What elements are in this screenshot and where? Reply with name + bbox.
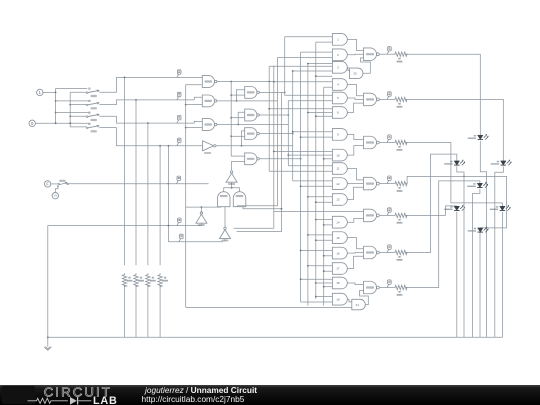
junction F-D tap bbox=[168, 145, 170, 147]
wire bus2 to SW3 main bbox=[70, 115, 87, 117]
resistor R-f 330 bbox=[394, 250, 408, 254]
net flag D bbox=[177, 142, 179, 145]
wire gA1 out elbow bbox=[347, 39, 363, 50]
wire gB3 input3 bbox=[316, 115, 333, 117]
wire col2 gate C upper feed bbox=[242, 131, 245, 146]
wire segment g to LED bbox=[406, 181, 480, 288]
source V1 bbox=[52, 193, 58, 199]
svg-text:11: 11 bbox=[336, 167, 339, 171]
gate col2-C (NAND) bbox=[245, 128, 257, 140]
wire bus2 to SW1 main bbox=[70, 91, 87, 93]
and gate 13 bbox=[332, 194, 347, 206]
junction col2-C out bbox=[292, 133, 294, 135]
wire gA3 out to gate20 bbox=[347, 67, 349, 70]
wire net B jog up to NAND2 bbox=[194, 97, 202, 100]
switch SW4 (SPDT) bbox=[89, 123, 91, 125]
svg-text:16: 16 bbox=[336, 251, 340, 255]
wire gF3 out elbow bbox=[347, 256, 363, 268]
LED Dc (segment c) bbox=[500, 206, 505, 210]
wire NOT1 output up to col2-D lower input bbox=[232, 162, 245, 171]
wire gB3 input2 bbox=[308, 112, 333, 114]
wire column2 feed vertical from NAND1 bbox=[230, 82, 232, 157]
wire NOT3 input lead bbox=[224, 239, 226, 242]
switch SW1 (SPDT) bbox=[89, 88, 91, 90]
and gate 12 bbox=[332, 178, 347, 190]
LED De (segment e) bbox=[454, 206, 459, 210]
LED Dg (segment g) bbox=[477, 183, 482, 187]
wire gG1 input3 bbox=[324, 286, 333, 288]
wire gF2 out bbox=[347, 252, 363, 255]
wire LED Df cathode bbox=[457, 166, 464, 337]
net flag seg-c bbox=[387, 139, 389, 142]
wire stub to NAND2 lower input bbox=[186, 104, 203, 106]
nand gate seg-a bbox=[364, 48, 377, 61]
resistor R-b 330 bbox=[394, 97, 408, 101]
wire gF1 input2 bbox=[316, 239, 333, 241]
wire seg-f output bbox=[379, 252, 387, 254]
wire col2-D output bbox=[259, 158, 300, 160]
wire NAND-e upper input long feed bbox=[274, 211, 364, 213]
wire seg-a output bbox=[379, 53, 387, 55]
wire seg-d output bbox=[379, 183, 387, 185]
grid vertical v11 bbox=[323, 87, 325, 305]
wire gate20 out wrap to NAND-a bbox=[361, 58, 371, 73]
wire AND1 left input to bus bbox=[186, 206, 221, 208]
net flag F bbox=[176, 180, 178, 183]
and gate 4 bbox=[332, 79, 347, 91]
wire LED Db cathode bbox=[495, 166, 504, 337]
grid vertical v8 bbox=[300, 52, 302, 302]
net flag seg-d bbox=[387, 180, 389, 183]
wire LED Dd cathode bbox=[479, 233, 481, 338]
wire gE1 input2 bbox=[324, 224, 333, 226]
junction NAND1 out v1 bbox=[268, 81, 270, 83]
svg-text:14: 14 bbox=[336, 220, 340, 224]
wire gB2 out bbox=[347, 98, 363, 99]
wire col2-B output bbox=[259, 114, 288, 116]
wire ground branch to NOT2 input bbox=[48, 226, 202, 338]
grid vertical v1 bbox=[268, 66, 270, 171]
and gate 3 bbox=[332, 61, 347, 73]
junction aux bbox=[281, 208, 283, 210]
wire gF2 input2 bbox=[324, 255, 333, 257]
wire segment c to LED bbox=[406, 143, 503, 207]
net flag B bbox=[177, 97, 179, 100]
wire aux cluster line 1 bbox=[234, 227, 274, 229]
LED Dd (segment d) bbox=[478, 228, 483, 232]
resistor R8 10k pulldown D bbox=[158, 273, 162, 287]
wire to NOT3 input bbox=[168, 241, 223, 243]
svg-text:19: 19 bbox=[336, 297, 340, 301]
wire net F horizontal bbox=[69, 183, 209, 185]
junction NAND2 out col2 tap bbox=[236, 100, 238, 102]
wire R6 to ground rail bbox=[135, 285, 137, 337]
junction NOT2-input wire with F drop bbox=[168, 225, 170, 227]
junction F vertical bbox=[168, 183, 170, 185]
wire AND2 input1 jog right bbox=[237, 58, 277, 206]
wire tap to col2 gate C lower input bbox=[231, 135, 245, 137]
net flag C bbox=[177, 120, 179, 123]
resistor R-d 330 bbox=[394, 181, 408, 185]
terminal F input bbox=[44, 181, 50, 187]
grid vertical v5 bbox=[284, 37, 286, 96]
wire terminal1 to bus1 bbox=[43, 91, 56, 93]
wire gG2 input2 bbox=[301, 301, 333, 303]
LED Db (segment b) bbox=[501, 161, 506, 165]
wire seg-e output bbox=[379, 214, 387, 216]
and gate 9 bbox=[332, 129, 347, 141]
junction col2-B out bbox=[287, 114, 289, 116]
wire LED De cathode bbox=[456, 212, 458, 337]
resistor R7 10k pulldown C bbox=[146, 273, 150, 287]
net flag A bbox=[177, 74, 179, 77]
wire gB1 input1 bbox=[274, 81, 333, 83]
wire NOT1 input lead bbox=[231, 182, 233, 188]
and gate 5 bbox=[332, 92, 347, 104]
wire NOT2 output bbox=[200, 207, 202, 213]
wire seg-c output bbox=[379, 142, 387, 144]
wire g20 input2 bbox=[316, 75, 333, 77]
svg-text:F: F bbox=[46, 181, 49, 186]
wire segment d to LED bbox=[406, 176, 507, 228]
wire gG1 input2 bbox=[316, 282, 333, 284]
wire bus2 to SW2 main bbox=[70, 104, 87, 106]
wire col2 gate A upper feed bbox=[237, 90, 245, 101]
and gate AND1 (vertical) bbox=[218, 192, 231, 207]
wire gB2 input2 bbox=[288, 100, 332, 102]
wire tap to col2 gate A lower input bbox=[231, 94, 245, 96]
wire gF3 input1 bbox=[308, 265, 333, 267]
svg-text:17: 17 bbox=[336, 267, 340, 271]
wire gB3 input1 bbox=[269, 108, 332, 110]
net A pulldown vertical bbox=[124, 77, 126, 265]
junction merge-NOT1 bbox=[231, 187, 233, 189]
junction bus1-SW2 bbox=[55, 100, 57, 102]
wire R5 to ground rail bbox=[124, 285, 126, 337]
wire gA2 input1 bbox=[301, 51, 333, 53]
junction bus1-terminal1 bbox=[55, 92, 57, 94]
wire AND2 input2 to grid v4 bbox=[243, 92, 282, 208]
wire seg-g output bbox=[379, 287, 387, 289]
and gate 2 bbox=[332, 49, 347, 61]
net flag seg-g bbox=[387, 284, 389, 287]
wire gD3 input2 bbox=[316, 201, 333, 203]
switch SW2 (SPDT) bbox=[89, 100, 91, 102]
wire corner to col2 gate D upper input bbox=[231, 155, 245, 157]
resistor R-g 330 bbox=[394, 285, 408, 289]
and gate 10 bbox=[332, 149, 347, 161]
wire R7 to ground rail bbox=[147, 285, 149, 337]
wire gG2 out to gate21 bbox=[347, 299, 352, 302]
nand gate seg-f bbox=[364, 246, 377, 259]
wire gG1 out bbox=[347, 283, 363, 285]
wire gA3 input1 bbox=[308, 63, 333, 65]
wire net C jog up to NAND3 bbox=[194, 121, 202, 123]
wire gA3 input2 bbox=[269, 65, 332, 67]
and gate 1 bbox=[332, 34, 347, 46]
nand gate seg-c bbox=[364, 136, 377, 149]
wire segment f to LED bbox=[406, 154, 457, 252]
junction col2-A out bbox=[284, 92, 286, 94]
grid vertical v2 bbox=[273, 65, 275, 228]
wire gG2 input1 bbox=[316, 296, 333, 298]
bus2 vertical net-0 bbox=[70, 92, 87, 127]
and gate 15 bbox=[332, 232, 347, 244]
wire gA3 input3 bbox=[293, 70, 333, 72]
wire AND2 input1 to grid v3 bbox=[236, 205, 238, 208]
net B pulldown vertical bbox=[135, 100, 137, 265]
junction col2b lower tap bbox=[230, 117, 232, 119]
wire NOT2 input lead bbox=[200, 223, 202, 225]
wire NOT0 output bbox=[216, 145, 293, 147]
wire gC1 input1 bbox=[293, 131, 333, 133]
wire gB3 out elbow bbox=[347, 103, 363, 112]
svg-text:20: 20 bbox=[353, 72, 357, 76]
switch SW5 (SPST) bbox=[58, 183, 60, 185]
wire stub to NAND3 lower input bbox=[186, 127, 203, 129]
net flag on NOT3 input wire bbox=[179, 238, 181, 241]
and gate 18 bbox=[332, 277, 347, 289]
wire LED Dc cathode bbox=[501, 212, 503, 337]
wire NAND1 output bbox=[217, 81, 274, 83]
junction rail-ground stem bbox=[47, 336, 49, 338]
wire R8 to ground rail bbox=[159, 285, 161, 337]
wire gB1 input2 bbox=[324, 86, 333, 88]
wire SW1 output to net A jog bbox=[99, 77, 202, 92]
grid vertical v10 bbox=[315, 42, 317, 299]
junction NAND1 out branch bbox=[230, 81, 232, 83]
and gate AND2 (vertical) bbox=[233, 192, 246, 207]
ground symbol bbox=[47, 337, 49, 347]
wire gD2 input2 bbox=[301, 185, 333, 187]
wire col2-C output bbox=[259, 133, 292, 135]
wire col2-A output bbox=[259, 91, 284, 93]
wire gF1 out elbow bbox=[347, 238, 363, 249]
gate col2-A (NAND) bbox=[245, 87, 257, 99]
terminal 1 (logic high input) bbox=[37, 89, 43, 95]
inverter NOT0 (column 1) bbox=[203, 141, 214, 151]
op gate NAND3 (column 1) bbox=[202, 119, 214, 131]
nand gate seg-g bbox=[364, 281, 377, 294]
junction col2-D out bbox=[300, 158, 302, 160]
svg-text:10: 10 bbox=[336, 153, 340, 157]
inverter NOT1 (pointing up) bbox=[226, 173, 237, 182]
nand gate seg-e bbox=[364, 209, 377, 222]
wire gate21 out wrap to NAND-g bbox=[360, 291, 369, 305]
and gate 19 bbox=[332, 293, 347, 305]
switch SW3 (SPDT) bbox=[89, 112, 91, 114]
svg-text:V1: V1 bbox=[54, 194, 58, 198]
wire AND1 right input down to NOT3 bbox=[224, 207, 226, 228]
grid vertical v6 bbox=[287, 101, 289, 166]
wire bus to gate21 lower input bbox=[186, 306, 352, 308]
wire tap to col2 gate B lower input bbox=[231, 117, 245, 119]
svg-text:13: 13 bbox=[336, 198, 340, 202]
junction bus-G3 stub bbox=[185, 127, 187, 129]
wire gD3 input1 bbox=[308, 196, 333, 198]
wire gD1 input1 bbox=[288, 165, 332, 167]
and gate 17 bbox=[332, 263, 347, 275]
wire terminal0 to SW4 upper throw bbox=[36, 122, 90, 124]
wire LED Dg cathode bbox=[473, 189, 480, 337]
junction bus1-SW3 bbox=[55, 112, 57, 114]
wire gC1 out elbow bbox=[347, 134, 363, 139]
grid vertical v9 bbox=[307, 64, 309, 306]
inverter NOT3 (pointing up) bbox=[220, 230, 231, 239]
gate col2-D (NAND) bbox=[245, 153, 257, 165]
wire gD2 input1 bbox=[293, 180, 333, 182]
grid vertical v7 bbox=[292, 71, 294, 181]
nand gate seg-b bbox=[364, 93, 377, 106]
and gate 21 bbox=[352, 299, 366, 310]
and gate 16 bbox=[332, 247, 347, 259]
nand gate seg-d bbox=[364, 177, 377, 190]
wire AND2 input1 drop bbox=[236, 205, 238, 208]
terminal 0 (logic low input) bbox=[29, 120, 35, 126]
ground rail bbox=[48, 336, 503, 338]
wire gD3 out elbow bbox=[347, 187, 363, 199]
wire gB2 input1 bbox=[285, 94, 333, 96]
net flag seg-a bbox=[387, 51, 389, 54]
and gate 6 bbox=[332, 107, 347, 119]
and gate 14 bbox=[332, 216, 347, 228]
wire AND outputs merge bbox=[224, 188, 240, 192]
resistor R-c 330 bbox=[394, 140, 408, 144]
op gate NAND1 (column 1) bbox=[202, 76, 214, 88]
wire V1 to switch contact bbox=[55, 187, 58, 193]
wire aux cluster line 2 bbox=[237, 209, 282, 232]
wire gD1 out elbow bbox=[347, 169, 363, 180]
svg-text:12: 12 bbox=[336, 182, 340, 186]
wire gC2 input1 bbox=[274, 150, 333, 152]
wire gB1 out elbow bbox=[347, 85, 363, 96]
wire gG1 input1 bbox=[301, 278, 333, 280]
resistor R6 10k pulldown B bbox=[134, 273, 138, 287]
wire gE1 input1 bbox=[316, 219, 333, 221]
wire gC2 input3 bbox=[324, 158, 333, 160]
svg-text:21: 21 bbox=[356, 303, 360, 307]
junction bus1-terminal0 wire bbox=[55, 122, 57, 124]
wire net F vertical drop bbox=[167, 146, 169, 242]
net flag on NOT2 input wire bbox=[177, 222, 179, 225]
wire SW2 output to net B jog bbox=[99, 100, 194, 105]
wire gF3 input2 bbox=[324, 270, 333, 272]
wire gC2 input2 bbox=[288, 154, 332, 156]
wire LED Da cathode bbox=[480, 141, 486, 338]
wire gA1 input1 bbox=[285, 36, 333, 38]
wire gC2 out elbow bbox=[347, 146, 363, 156]
wire gD1 input2 bbox=[269, 170, 332, 172]
wire bus1 to SW3 upper throw bbox=[56, 112, 90, 114]
junction bus2-SW2 bbox=[69, 104, 71, 106]
LED Da (segment a) bbox=[478, 135, 483, 139]
and gate 11 bbox=[332, 163, 347, 175]
wire SW3 output to net C jog bbox=[99, 116, 194, 123]
net C pulldown vertical bbox=[147, 123, 149, 265]
junction bus2-SW3 bbox=[69, 115, 71, 117]
gate col2-B (NAND) bbox=[245, 109, 257, 121]
wire segment b to LED bbox=[406, 99, 504, 160]
junction col2c lower tap bbox=[230, 135, 232, 137]
wire SW4 output to net D jog bbox=[99, 128, 202, 146]
CircuitLab logo bbox=[0, 385, 140, 405]
bus1 vertical net-1 bbox=[56, 89, 88, 124]
junction seg-d crossing bbox=[463, 176, 465, 178]
wire NAND2 output bbox=[217, 100, 278, 102]
junction col2a lower tap bbox=[230, 94, 232, 96]
junction NOT0 out col2 tap bbox=[241, 145, 243, 147]
inverter NOT2 (pointing up) bbox=[196, 214, 207, 223]
wire segment e to LED bbox=[406, 206, 457, 216]
wire gA1 input2 bbox=[316, 41, 333, 43]
resistor R5 10k pulldown A bbox=[122, 273, 126, 287]
net flag seg-f bbox=[387, 249, 389, 252]
wire NAND3 output bbox=[217, 124, 288, 126]
net D pulldown vertical bbox=[159, 146, 161, 265]
wire gF1 input1 bbox=[308, 234, 333, 236]
wire terminal F to SW5 bbox=[51, 183, 58, 185]
junction NAND3 out col2 tap bbox=[237, 124, 239, 126]
footer bar bbox=[0, 385, 540, 405]
wire gF2 input1 bbox=[301, 249, 333, 251]
and gate 20 bbox=[350, 68, 364, 79]
wire col2 gate B upper feed bbox=[238, 112, 245, 124]
net flag seg-e bbox=[387, 212, 389, 215]
svg-text:LAB: LAB bbox=[93, 395, 118, 405]
wire G1 lower input bus vertical bbox=[186, 85, 203, 308]
wire gC1 input2 bbox=[301, 136, 333, 138]
svg-text:18: 18 bbox=[336, 281, 340, 285]
junction NOT2 output tap bbox=[201, 206, 203, 208]
svg-text:15: 15 bbox=[336, 236, 340, 240]
junction bus2-terminal0 bbox=[69, 122, 71, 124]
LED Df (segment f) bbox=[454, 161, 459, 165]
wire gD2 out bbox=[347, 183, 363, 185]
wire gA2 out bbox=[347, 53, 363, 56]
resistor R-e 330 bbox=[394, 213, 408, 217]
wire segment a to LED bbox=[406, 54, 481, 135]
wire bus1 to SW2 upper throw bbox=[56, 100, 90, 102]
wire gA2 input2 bbox=[278, 57, 333, 59]
junction bus-G2 stub bbox=[185, 104, 187, 106]
net flag seg-b bbox=[387, 96, 389, 99]
resistor R-a 330 bbox=[394, 52, 408, 56]
wire seg-b output bbox=[379, 98, 387, 100]
op gate NAND2 (column 1) bbox=[202, 95, 214, 107]
wire gE1 out elbow bbox=[347, 218, 363, 222]
